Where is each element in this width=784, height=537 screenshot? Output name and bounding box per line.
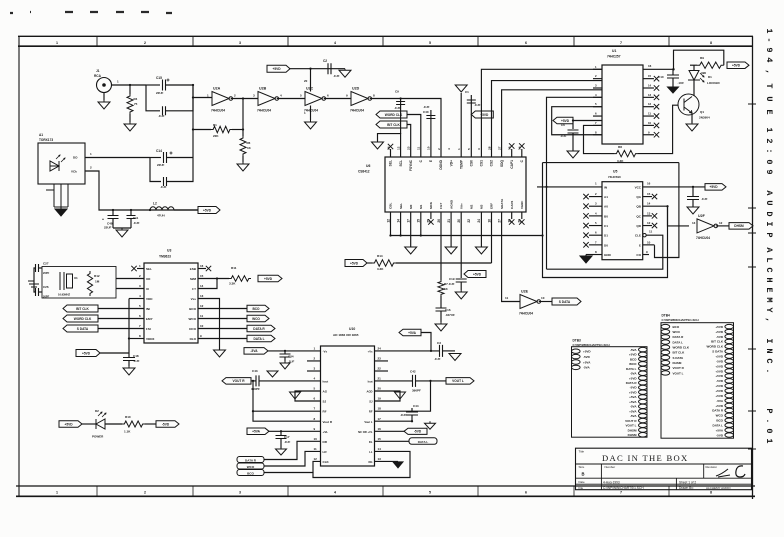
- U5 QD no-connect: [643, 225, 652, 227]
- net flag +5VA above U10 +Vs: [399, 329, 421, 336]
- svg-text:-5VD: -5VD: [162, 422, 170, 426]
- svg-text:L2: L2: [153, 202, 157, 206]
- svg-text:9: 9: [764, 47, 774, 52]
- svg-text:17: 17: [407, 219, 411, 223]
- ground below C7: [687, 207, 699, 214]
- wire C10 to pin16 net: [672, 68, 674, 70]
- U6 pin stub with no-connect X top pin1: [390, 149, 392, 157]
- svg-text:-Vs: -Vs: [323, 349, 328, 353]
- ground below C34: [280, 361, 290, 369]
- svg-text:1: 1: [457, 148, 461, 150]
- svg-text:SJ: SJ: [323, 400, 327, 404]
- ground below Q1: [686, 123, 698, 131]
- transistor Q1 2N3904: [678, 94, 699, 115]
- wire U3 DCO pin10: [198, 328, 247, 330]
- capacitor C15 with C13 parallel loop: [146, 84, 160, 86]
- svg-text:-5VD: -5VD: [716, 359, 724, 363]
- capacitor C34: [284, 350, 286, 352]
- svg-text:15: 15: [200, 274, 204, 278]
- U1 left pin stubs and numbers: [593, 68, 602, 70]
- svg-text:C:\WP\WIN\CHARTS\1.SCH: C:\WP\WIN\CHARTS\1.SCH: [603, 486, 644, 490]
- net flag +5VD at R11: [258, 275, 282, 282]
- wire R1 to U2A output node: [242, 99, 244, 130]
- svg-text:U3: U3: [167, 249, 171, 253]
- svg-text:DHSM: DHSM: [628, 428, 637, 432]
- net flag BIT CLK: [376, 121, 407, 128]
- svg-text:24: 24: [477, 219, 481, 223]
- svg-text:12: 12: [200, 304, 204, 308]
- svg-text:WORD CLK: WORD CLK: [74, 317, 92, 321]
- wire U3 VDD pin4: [129, 298, 144, 300]
- svg-text:74HCU04: 74HCU04: [696, 236, 710, 240]
- svg-text:22: 22: [378, 367, 382, 371]
- svg-text:BIT CLK: BIT CLK: [673, 351, 686, 355]
- wire DATA R to U10 DR: [264, 441, 321, 459]
- resistor R10: [122, 421, 145, 427]
- wire J1 ground stem: [103, 93, 105, 101]
- svg-text:.1UF: .1UF: [474, 103, 481, 107]
- svg-text:8: 8: [710, 491, 712, 495]
- svg-text:DLO: DLO: [190, 337, 197, 341]
- svg-text:C40: C40: [423, 110, 429, 114]
- svg-text:ALCHEMY AUDIO: ALCHEMY AUDIO: [706, 486, 731, 490]
- svg-text:E: E: [764, 109, 774, 114]
- svg-text:390PF: 390PF: [412, 389, 421, 393]
- U6 pin14 bottom no-connect X: [521, 212, 523, 219]
- wire -5VA to U10 pin1: [268, 350, 321, 352]
- U10 pin23 pin22 stubs: [375, 360, 389, 362]
- capacitor C1 on VD+: [470, 95, 472, 157]
- wire U3 VDDX pin8: [129, 338, 144, 340]
- svg-text:DL: DL: [369, 440, 373, 444]
- svg-text:C27: C27: [43, 262, 49, 266]
- capacitor C42: [413, 375, 416, 387]
- svg-text:LOCKED: LOCKED: [707, 81, 721, 85]
- capacitor C6: [572, 119, 574, 121]
- svg-text:S DATA: S DATA: [559, 300, 571, 304]
- U3 pin1 no-connect: [137, 268, 144, 270]
- capacitor C31: [440, 345, 443, 357]
- svg-text:A: A: [764, 190, 774, 196]
- DTB4 left side pins: [661, 324, 670, 328]
- IC U10 AD1866 body: [321, 346, 375, 466]
- wire A1 pin1 DO to C14: [85, 157, 150, 159]
- svg-text:VCC: VCC: [635, 185, 642, 189]
- net flag +5VD at L2: [198, 207, 220, 214]
- svg-text:1: 1: [764, 438, 774, 443]
- wire D2 to R10: [105, 423, 122, 425]
- net flag -5VA at U10 -Vs: [244, 348, 268, 355]
- svg-text:U1: U1: [612, 49, 616, 53]
- svg-text:3.3K: 3.3K: [229, 282, 236, 286]
- crystal X1: [60, 272, 64, 290]
- svg-text:3: 3: [239, 41, 241, 45]
- svg-text:C: C: [764, 267, 774, 272]
- fax scan artifact dashes top-left: [10, 12, 172, 13]
- wire U5 IN pin1: [537, 186, 602, 188]
- svg-text:C1: C1: [604, 224, 608, 228]
- svg-text:14: 14: [378, 447, 382, 451]
- DTB3 right side pins: [639, 347, 648, 351]
- svg-text:21: 21: [447, 219, 451, 223]
- svg-text:D1: D1: [708, 75, 712, 79]
- capacitor C2: [328, 63, 331, 74]
- net flag DHSM: [729, 223, 753, 230]
- ground below C10: [668, 87, 679, 93]
- wire R10 to -5VD: [145, 423, 156, 425]
- svg-text:VOUT L: VOUT L: [626, 424, 637, 428]
- net flag +5VD at power LED: [59, 421, 82, 428]
- ground left of U6: [372, 141, 384, 149]
- U3 ESB no-connect: [198, 268, 206, 270]
- U6 pin13 bottom no-connect X: [511, 212, 513, 219]
- wire U10 AG SJ ground loop left: [295, 391, 321, 401]
- svg-text:BCO: BCO: [673, 325, 680, 329]
- svg-text:4: 4: [334, 41, 336, 45]
- net flag BCO at U3: [247, 305, 269, 312]
- wire U1 pin16 corner to R9: [674, 50, 724, 69]
- svg-text:5: 5: [467, 148, 471, 150]
- svg-text:16: 16: [648, 64, 652, 68]
- svg-text:T: T: [764, 83, 774, 88]
- svg-text:-5VA: -5VA: [716, 399, 723, 403]
- svg-text:15: 15: [417, 219, 421, 223]
- svg-text:1: 1: [56, 491, 58, 495]
- wire U10 LL loop: [313, 451, 410, 477]
- svg-text:9: 9: [764, 169, 774, 174]
- svg-text:+Vs: +Vs: [368, 349, 373, 353]
- wire J1 pin1 to C15 network: [112, 84, 147, 86]
- svg-text:RF: RF: [323, 410, 327, 414]
- wire BIT CLK to U3 pin5: [98, 308, 144, 310]
- net flag WCO at U3: [247, 315, 269, 322]
- IC U3 YM3623 body: [144, 263, 198, 343]
- svg-text:+5VA: +5VA: [583, 360, 591, 364]
- svg-text:Vout L: Vout L: [364, 420, 373, 424]
- svg-text:12: 12: [396, 146, 400, 150]
- U6 bottom pin7 ground: [450, 212, 452, 247]
- svg-text:BCO: BCO: [630, 357, 637, 361]
- svg-text:10: 10: [648, 121, 652, 125]
- svg-text:20: 20: [304, 79, 308, 83]
- svg-text:.1UF: .1UF: [423, 105, 430, 109]
- svg-text:EMY: EMY: [146, 317, 153, 321]
- svg-text:-5VD: -5VD: [630, 386, 638, 390]
- net flag DATA R stacked: [237, 457, 264, 463]
- svg-text:CAP1: CAP1: [510, 160, 514, 169]
- wire to U2A input: [193, 97, 212, 99]
- inductor L2: [149, 209, 151, 211]
- U6 bottom bus wire: [390, 235, 542, 237]
- capacitor C14 with C12 parallel loop: [150, 157, 161, 159]
- svg-text:+5VD: +5VD: [709, 185, 718, 189]
- svg-text:BCO: BCO: [189, 307, 196, 311]
- wire +5VD flag to U1 pin6: [573, 120, 602, 122]
- svg-text:22: 22: [467, 219, 471, 223]
- ground right of Vout L wire: [425, 421, 436, 429]
- svg-text:U2F: U2F: [698, 214, 706, 218]
- svg-text:2N3904: 2N3904: [699, 116, 710, 120]
- net flag BCO stacked: [237, 470, 264, 476]
- net flag VOUT L: [446, 378, 474, 385]
- svg-text:U6: U6: [366, 164, 370, 168]
- net flag WORD CLK: [376, 111, 407, 118]
- svg-text:Number: Number: [605, 465, 616, 469]
- ground below C16: [435, 322, 447, 331]
- svg-text:+5VD: +5VD: [583, 350, 591, 354]
- svg-text:DATA R: DATA R: [245, 458, 257, 462]
- svg-text:INI: INI: [146, 307, 150, 311]
- svg-text:Date: Date: [579, 480, 585, 484]
- capacitor C11: [130, 209, 132, 211]
- svg-text:15: 15: [648, 74, 652, 78]
- net flag -5VD at U10 pin16: [375, 430, 406, 432]
- svg-text:390PF: 390PF: [251, 387, 260, 391]
- svg-text:6: 6: [525, 41, 527, 45]
- svg-text:CO: CO: [636, 253, 641, 257]
- svg-text:WCO: WCO: [673, 330, 681, 334]
- wire S DATA to U3 pin7: [98, 328, 144, 330]
- wire U1 pin16 to transistor network: [643, 68, 674, 70]
- svg-text:VOUT L: VOUT L: [673, 371, 684, 375]
- svg-text:BIT CLK: BIT CLK: [387, 123, 400, 127]
- svg-text:CBL: CBL: [389, 203, 393, 209]
- svg-text:.1UF: .1UF: [333, 74, 340, 78]
- svg-text:+5VD: +5VD: [715, 394, 723, 398]
- svg-text:11: 11: [648, 112, 651, 116]
- wire U3 XI to crystal: [116, 288, 144, 290]
- wire U2E output to S DATA: [539, 301, 552, 303]
- svg-text:AD 1866 OR 1865: AD 1866 OR 1865: [333, 333, 359, 337]
- ground above U6 DGND: [455, 85, 467, 92]
- svg-text:R8: R8: [618, 145, 622, 149]
- resistor R7 filter: [438, 280, 444, 296]
- svg-text:SDATA: SDATA: [500, 198, 504, 209]
- svg-text:10: 10: [200, 324, 204, 328]
- svg-text:VOUT R: VOUT R: [625, 419, 637, 423]
- svg-text:DAC IN THE BOX: DAC IN THE BOX: [602, 453, 689, 463]
- svg-text:+5VD: +5VD: [629, 376, 637, 380]
- wire WORD CLK to U6: [407, 115, 421, 158]
- svg-text:+5VD: +5VD: [264, 277, 273, 281]
- svg-text:-5VD: -5VD: [716, 379, 724, 383]
- svg-text:C1: C1: [465, 90, 469, 94]
- svg-text:QD: QD: [636, 224, 641, 228]
- U6 pin5 bottom no-connect X: [430, 212, 432, 219]
- svg-text:I: I: [764, 338, 774, 343]
- wire Q1 emitter to ground: [691, 113, 693, 123]
- svg-text:.1UF: .1UF: [133, 221, 140, 225]
- svg-text:47UH: 47UH: [157, 214, 165, 218]
- svg-text:C9: C9: [395, 90, 399, 94]
- svg-text:13: 13: [648, 93, 652, 97]
- svg-text:6: 6: [525, 491, 527, 495]
- wire Iout L feedback to RF right: [429, 380, 431, 382]
- svg-text:POWER: POWER: [92, 435, 104, 439]
- resistor R4: [129, 84, 131, 86]
- svg-text:+5VA: +5VA: [629, 409, 637, 413]
- wire U3 M/M pin15 to R11: [198, 278, 229, 280]
- svg-text:+5VD: +5VD: [715, 389, 723, 393]
- svg-text:C11: C11: [133, 216, 139, 220]
- svg-text:BCO: BCO: [716, 419, 723, 423]
- svg-text:U2A: U2A: [213, 87, 221, 91]
- svg-text:LL: LL: [369, 450, 373, 454]
- wire U10 Vout R pin8 stub: [253, 411, 321, 421]
- svg-text:16: 16: [378, 427, 382, 431]
- wire +5VA to U10 pin9: [269, 430, 321, 432]
- svg-text:GND: GND: [604, 253, 612, 257]
- svg-text:3: 3: [239, 491, 241, 495]
- svg-text:U: U: [764, 96, 774, 101]
- svg-text:DATA L: DATA L: [713, 424, 724, 428]
- svg-text:+5VD: +5VD: [350, 261, 359, 265]
- svg-text:4: 4: [334, 491, 336, 495]
- svg-text:+VL: +VL: [323, 430, 329, 434]
- crystal network box: [42, 267, 116, 299]
- svg-text:A1: A1: [39, 133, 43, 137]
- net flag DATA R at U3: [247, 325, 275, 332]
- net flag +5VD at U6 VD+: [471, 111, 493, 118]
- svg-text:VOUT R: VOUT R: [232, 379, 245, 383]
- wire R8 to Q1 base: [638, 105, 679, 153]
- U5 QA no-connect: [643, 196, 652, 198]
- net flag +5VD logic supply: [267, 65, 290, 72]
- net flag +5VD at U5 VCC: [705, 184, 726, 191]
- svg-text:C16: C16: [445, 308, 451, 312]
- ground below C19: [455, 290, 467, 299]
- net flag -5VD at power LED: [156, 421, 179, 428]
- svg-text:0: 0: [764, 428, 774, 433]
- optical receiver A1 TORX173: [38, 143, 85, 184]
- wire U1 pin7 to R8: [584, 125, 603, 153]
- svg-text:R12: R12: [94, 274, 100, 278]
- svg-text:DHSM: DHSM: [673, 361, 682, 365]
- svg-text:+5VA: +5VA: [716, 428, 724, 432]
- svg-text:15: 15: [647, 192, 651, 196]
- wire U2D output to CS8412 clock pin: [370, 99, 441, 158]
- wire U3 Vss pin13 to ground: [198, 299, 220, 351]
- net flag +5VD at U1 select: [553, 117, 573, 124]
- svg-text:2: 2: [144, 41, 146, 45]
- svg-text:D0: D0: [604, 243, 608, 247]
- svg-text:20: 20: [457, 219, 461, 223]
- svg-text:I: I: [764, 221, 774, 226]
- svg-text:10: 10: [647, 240, 651, 244]
- svg-text:19: 19: [378, 397, 382, 401]
- svg-text:M/M: M/M: [190, 277, 196, 281]
- wire top strap to U1 pin4: [547, 97, 603, 187]
- svg-text:C:\WP\WIN\CHARTS\1.SCH: C:\WP\WIN\CHARTS\1.SCH: [662, 318, 699, 322]
- U6 pin13 no-connect X: [511, 149, 513, 157]
- wire +5VD to D2: [82, 423, 96, 425]
- svg-text:12: 12: [386, 219, 390, 223]
- wire ground loop left of U6: [378, 134, 401, 157]
- svg-text:15: 15: [378, 437, 382, 441]
- inverter U2C: [305, 92, 322, 106]
- svg-text:14: 14: [647, 202, 651, 206]
- U6 pin14 no-connect X: [521, 149, 523, 157]
- svg-text:Vout R: Vout R: [323, 420, 333, 424]
- wire VOUT R feedback to RF: [253, 381, 321, 411]
- svg-text:74HCU04: 74HCU04: [304, 109, 318, 113]
- svg-text:10: 10: [427, 146, 431, 150]
- svg-text:-5VD: -5VD: [716, 335, 724, 339]
- svg-text:11: 11: [417, 146, 421, 150]
- resistor R6 to ground: [240, 136, 246, 156]
- svg-text:-5VA: -5VA: [250, 349, 258, 353]
- svg-text:R14: R14: [377, 254, 383, 258]
- wire U6 pin12 to U1 pin3: [502, 90, 602, 157]
- svg-text:FSYNC: FSYNC: [409, 159, 413, 171]
- svg-text:S DATA: S DATA: [673, 356, 685, 360]
- svg-text:R4: R4: [134, 97, 138, 101]
- svg-text:7: 7: [620, 491, 622, 495]
- svg-text:AG: AG: [323, 390, 328, 394]
- wire shift register feedback box outer: [543, 163, 668, 278]
- capacitor C27: [39, 267, 42, 269]
- svg-text:+5VD: +5VD: [732, 64, 741, 68]
- svg-text:VDD: VDD: [146, 297, 153, 301]
- inverter U2D: [351, 92, 368, 106]
- svg-text:C: C: [764, 358, 774, 363]
- svg-text:.1UF: .1UF: [284, 440, 290, 444]
- wire U5 CO pin: [643, 254, 649, 256]
- svg-text::: :: [764, 148, 774, 153]
- svg-text:74HCU04: 74HCU04: [257, 109, 271, 113]
- svg-text:U2D: U2D: [352, 87, 360, 91]
- ground below C48 C11: [113, 227, 131, 229]
- svg-text:VCk: VCk: [71, 170, 77, 174]
- wire U3 WCO pin11: [198, 318, 247, 320]
- svg-text:DATA R: DATA R: [712, 409, 724, 413]
- svg-text:AGD: AGD: [367, 390, 373, 394]
- svg-text:+5VD: +5VD: [629, 390, 637, 394]
- svg-text:DATA R: DATA R: [673, 335, 685, 339]
- ground below C6: [567, 151, 579, 158]
- svg-text:27: 27: [497, 146, 501, 150]
- svg-text:Drawn By:: Drawn By:: [679, 486, 694, 490]
- svg-text:CLE: CLE: [635, 234, 641, 238]
- svg-text:20PF: 20PF: [43, 271, 50, 275]
- svg-text:22K: 22K: [213, 134, 219, 138]
- svg-text:0: 0: [764, 159, 774, 164]
- ground below U3 Vss: [214, 350, 226, 357]
- wire U2C output to U2D: [324, 98, 351, 100]
- arrow ground right of C31: [449, 354, 461, 361]
- svg-text:WCO: WCO: [629, 362, 637, 366]
- svg-text:C15: C15: [156, 76, 162, 80]
- svg-text:13: 13: [692, 221, 696, 225]
- title block frame: [576, 448, 752, 490]
- wire U6 pin8 bottom to +5VD flag: [460, 212, 462, 274]
- svg-text:P: P: [764, 232, 774, 237]
- svg-text:E: E: [764, 287, 774, 292]
- DTB4 right side pins: [725, 324, 734, 328]
- wire R4 to ground: [129, 114, 131, 122]
- svg-text:L: L: [764, 257, 774, 262]
- svg-text:CAP2: CAP2: [510, 200, 514, 209]
- U6 bottom pin wires to bus: [390, 212, 392, 236]
- svg-text:WORD CLK: WORD CLK: [673, 346, 690, 350]
- capacitor C17: [280, 430, 282, 432]
- svg-text:22UF: 22UF: [104, 226, 112, 230]
- resistor R1 feedback: [193, 129, 211, 131]
- svg-text:+5VD: +5VD: [715, 364, 723, 368]
- resistor R11: [229, 276, 251, 282]
- svg-text:R6: R6: [247, 141, 251, 145]
- svg-text:7: 7: [620, 41, 622, 45]
